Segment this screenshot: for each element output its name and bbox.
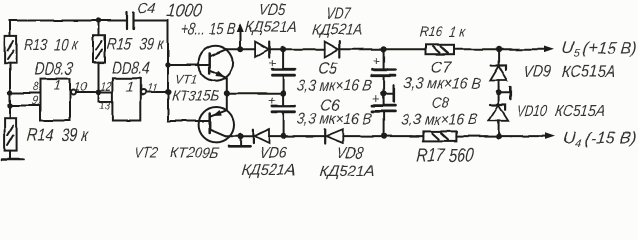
svg-text:VD9: VD9 (522, 62, 551, 80)
capacitor C7 (383, 49, 385, 70)
resistor R13 (5, 36, 17, 63)
diode VD7 (325, 42, 339, 57)
wire pin13 stub (99, 92, 113, 102)
svg-text:(-15 В): (-15 В) (584, 129, 638, 148)
wire VD7 to R16 (340, 48, 426, 50)
svg-text:R16 1 к: R16 1 к (418, 25, 467, 41)
wire pin12 (99, 91, 113, 93)
node emitters junction (224, 90, 230, 96)
svg-text:КТ209Б: КТ209Б (169, 146, 220, 162)
svg-text:(+15 В): (+15 В) (582, 39, 638, 58)
wire pin10 to node (76, 91, 99, 93)
wire VD8 to R17 (343, 135, 424, 137)
resistor R15 (93, 35, 105, 62)
capacitor C4 (127, 13, 134, 30)
node R15 top (96, 18, 101, 23)
wire VD5 to node1 (269, 48, 325, 50)
node zener mid (496, 90, 502, 96)
wire R17 to U4 node (456, 135, 498, 137)
node supply junction (237, 46, 243, 52)
transistor VT1 circle (198, 46, 233, 81)
transistor VT2 base bar (208, 114, 211, 134)
svg-text:13: 13 (99, 99, 111, 113)
resistor R17 (423, 131, 456, 141)
node VT1 base junction (165, 62, 170, 67)
zener VD10 (498, 93, 500, 105)
svg-text:С4: С4 (137, 2, 156, 18)
svg-text:VD6: VD6 (259, 144, 288, 162)
wire VT2 base (168, 120, 209, 122)
gate DD8.4 box (112, 79, 140, 121)
transistor VT1 emitter with arrow (210, 70, 227, 78)
gate DD8.3 output bubble pin10 (71, 90, 76, 95)
wire top rail left (corner to C4) (10, 21, 127, 37)
svg-text:С7: С7 (430, 59, 453, 77)
node C8 bottom (381, 133, 387, 139)
wire R16 to U5 node (454, 48, 499, 50)
node VD9 top (496, 46, 502, 52)
capacitor C8 (383, 93, 385, 105)
wire pin8 (10, 92, 41, 94)
svg-text:КС515А: КС515А (560, 62, 616, 81)
transistor VT2 collector (210, 130, 226, 137)
wire mid rail to C5/C6 (227, 92, 283, 94)
svg-text:КД521А: КД521А (319, 163, 376, 180)
output arrow U5 (499, 48, 546, 50)
diode VD6 (points left) (255, 129, 269, 143)
node pin12 junction (96, 89, 102, 95)
svg-text:VD5: VD5 (259, 1, 287, 19)
node VD10 bottom (496, 133, 502, 139)
svg-text:VT1: VT1 (175, 72, 198, 86)
resistor R14 (5, 118, 17, 150)
svg-text:4: 4 (575, 138, 582, 150)
svg-text:R17 560: R17 560 (416, 146, 476, 167)
svg-text:КТ315Б: КТ315Б (171, 89, 220, 105)
gate DD8.3 box (41, 79, 71, 121)
wire R15 bottom lead (98, 63, 100, 92)
svg-text:11: 11 (146, 81, 158, 95)
node C6 bottom (280, 133, 286, 139)
transistor VT1 collector (210, 49, 227, 56)
node feedback-pin11 (165, 89, 171, 95)
svg-text:КД521А: КД521А (244, 19, 298, 36)
svg-text:КС515А: КС515А (554, 102, 605, 120)
node C5/C6 mid (280, 90, 286, 96)
svg-text:3,3 мк×16 В: 3,3 мк×16 В (296, 111, 373, 128)
svg-text:+: + (373, 53, 381, 68)
transistor VT2 circle (199, 107, 234, 142)
gate DD8.4 output bubble pin11 (141, 90, 146, 95)
wire top rail right of C4 to feedback corner (134, 21, 168, 66)
svg-text:VD10: VD10 (516, 102, 547, 120)
svg-text:R14 39 к: R14 39 к (26, 125, 90, 145)
svg-text:+: + (373, 91, 381, 106)
wire VT1 base (168, 64, 209, 66)
wire left rail R13 to R14 (9, 63, 11, 118)
output arrow U4 (499, 135, 547, 137)
ground at C7/C8 mid (sideways) (384, 92, 393, 94)
wire pin9 (10, 105, 41, 107)
node pin8 (7, 90, 12, 95)
node VT2 collector ground junction (238, 133, 244, 139)
supply input arrow +8...15V (239, 30, 241, 49)
resistor R16 (426, 45, 454, 54)
svg-text:DD8.4: DD8.4 (111, 58, 151, 78)
svg-text:R13 10 к: R13 10 к (23, 36, 80, 54)
svg-text:+: + (269, 93, 277, 108)
wire R15 top lead (98, 21, 100, 36)
wire VD6 to VD8 (269, 135, 325, 137)
node pin9 (7, 103, 12, 108)
svg-text:3,3 мк×16 В: 3,3 мк×16 В (403, 76, 482, 93)
svg-text:КД521А: КД521А (312, 22, 364, 39)
capacitor C5 (282, 49, 284, 69)
node C5 top (280, 46, 286, 52)
node C7 top (381, 46, 387, 52)
svg-text:3,3 мк×16 В: 3,3 мк×16 В (296, 78, 373, 95)
svg-text:R15 39 к: R15 39 к (106, 35, 166, 53)
ground at VT2 collector (240, 136, 242, 145)
diode VD8 (points left) (326, 129, 343, 143)
diode VD5 (255, 42, 269, 57)
svg-text:VD7: VD7 (325, 4, 352, 22)
svg-text:VT2: VT2 (134, 145, 159, 162)
svg-text:3,3 мк×16 В: 3,3 мк×16 В (401, 112, 479, 129)
ground left (below R14) (9, 151, 11, 159)
svg-text:1000: 1000 (166, 0, 203, 20)
svg-text:12: 12 (100, 80, 112, 94)
wire VT1 emitter down to mid node (226, 78, 228, 93)
svg-text:С5: С5 (318, 59, 339, 78)
svg-text:10: 10 (73, 80, 88, 94)
svg-text:+8... 15 В: +8... 15 В (180, 20, 236, 39)
zener VD9 (498, 49, 500, 65)
wire bottom rail left (241, 135, 254, 137)
ground at zener mid (sideways) (499, 92, 510, 94)
node C7/C8 mid (381, 90, 387, 96)
svg-text:DD8.3: DD8.3 (34, 58, 74, 78)
svg-text:+: + (269, 55, 277, 70)
svg-text:VD8: VD8 (336, 145, 364, 163)
transistor VT1 base bar (208, 54, 211, 74)
wire feedback column (167, 65, 169, 121)
capacitor C6 (282, 93, 284, 106)
svg-text:С8: С8 (431, 96, 450, 112)
wire pin11 to feedback column (146, 91, 168, 93)
wire top diode rail start (227, 48, 255, 50)
transistor VT2 emitter with arrow (points to base) (226, 93, 228, 110)
svg-text:КД521А: КД521А (241, 162, 296, 179)
